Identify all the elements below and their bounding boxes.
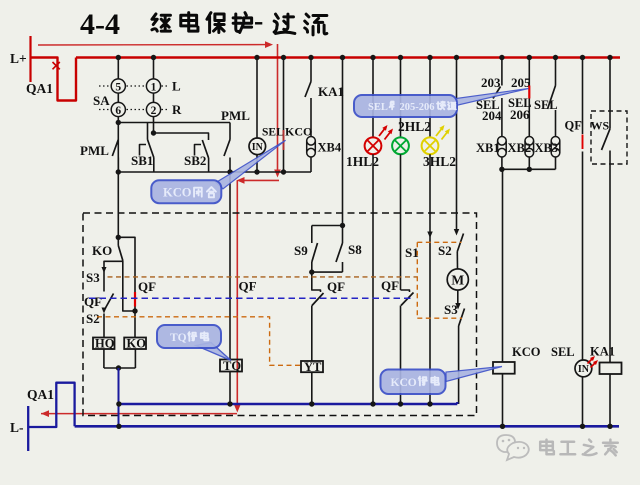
wire branch to QF column <box>118 237 135 337</box>
svg-text:PML: PML <box>221 108 250 123</box>
svg-text:IN: IN <box>252 142 264 153</box>
svg-text:SA: SA <box>93 93 110 108</box>
dashed enclosure box <box>83 213 477 416</box>
wire rail C <box>118 171 311 173</box>
svg-text:SEL: SEL <box>534 98 558 112</box>
svg-text:3HL2: 3HL2 <box>423 154 456 169</box>
watermark logo <box>497 435 529 460</box>
svg-text:M: M <box>451 273 464 288</box>
svg-text:S2: S2 <box>438 243 452 258</box>
coil TQ <box>220 360 242 372</box>
svg-text:QF: QF <box>565 119 583 133</box>
callout KCO energized <box>446 367 502 382</box>
svg-text:2: 2 <box>151 105 157 117</box>
wire jog from KO to QF column <box>123 261 135 312</box>
svg-text:L+: L+ <box>10 51 27 66</box>
svg-text:SEL: SEL <box>262 127 284 139</box>
wire blue mid bus <box>119 403 458 406</box>
svg-text:-: - <box>254 6 263 37</box>
callout KCO closed <box>216 140 286 189</box>
svg-text:TQ: TQ <box>170 332 187 344</box>
svg-text:2HL2: 2HL2 <box>398 119 431 134</box>
svg-text:205-206: 205-206 <box>400 102 435 113</box>
blue dashed QF link <box>89 297 413 299</box>
svg-text:S9: S9 <box>294 243 308 258</box>
svg-text:QF: QF <box>327 279 345 294</box>
svg-text:SB1: SB1 <box>131 153 153 168</box>
svg-text:R: R <box>172 102 182 117</box>
wire TQ column <box>229 172 231 360</box>
svg-text:SEL: SEL <box>508 96 532 110</box>
svg-text:KA1: KA1 <box>318 84 344 99</box>
red annotation arrow from title to KCO contact <box>38 44 268 46</box>
svg-text:KA1: KA1 <box>590 345 615 359</box>
svg-text:1: 1 <box>151 81 157 93</box>
svg-text:XB4: XB4 <box>318 141 342 155</box>
coil YT <box>301 361 323 372</box>
svg-text:SEL: SEL <box>368 102 388 113</box>
svg-text:1HL2: 1HL2 <box>346 154 379 169</box>
svg-text:QF: QF <box>239 279 257 294</box>
svg-text:QA1: QA1 <box>26 81 53 96</box>
svg-text:YT: YT <box>304 360 322 374</box>
svg-text:KO: KO <box>92 243 112 258</box>
svg-text:KCO: KCO <box>391 377 417 389</box>
svg-text:L-: L- <box>10 420 24 435</box>
svg-text:205: 205 <box>511 75 531 90</box>
coil KO <box>124 338 146 350</box>
wire rail B <box>151 130 156 135</box>
wire rail A <box>116 120 121 125</box>
wire L+ bus (red) <box>76 56 620 59</box>
wire HQ/KO junction <box>103 349 105 368</box>
svg-text:L: L <box>172 79 181 94</box>
callout SEL 205-206 on <box>456 89 529 106</box>
svg-text:XB1: XB1 <box>476 141 500 155</box>
motor M <box>447 269 468 290</box>
svg-text:WS: WS <box>591 119 610 133</box>
svg-text:QA1: QA1 <box>27 387 54 402</box>
svg-text:4-4: 4-4 <box>80 8 120 41</box>
wire rail D <box>502 168 556 170</box>
svg-text:PML: PML <box>80 143 109 158</box>
watermark text <box>540 440 554 455</box>
orange dashed link S3 <box>108 276 418 278</box>
svg-text:S8: S8 <box>348 242 362 257</box>
svg-text:SEL: SEL <box>551 345 575 359</box>
svg-text:S3: S3 <box>86 270 100 285</box>
coil HQ <box>93 338 115 350</box>
svg-text:HQ: HQ <box>95 337 115 351</box>
svg-text:QF: QF <box>84 294 102 309</box>
svg-text:QF: QF <box>381 278 399 293</box>
svg-text:5: 5 <box>115 81 121 93</box>
wire L- bus (blue) <box>75 425 619 428</box>
svg-text:6: 6 <box>115 105 121 117</box>
svg-text:S2: S2 <box>86 311 100 326</box>
orange dashed box around S1/S2/M/S3 <box>416 242 418 318</box>
svg-text:KO: KO <box>127 337 147 351</box>
lamp 3HL2 (yellow) <box>429 58 431 138</box>
red annotation arrow along box bottom to L- <box>41 413 237 415</box>
svg-text:203: 203 <box>481 75 501 90</box>
svg-text:KCO: KCO <box>512 345 541 359</box>
wire left column into box <box>117 172 119 237</box>
svg-text:IN: IN <box>578 364 590 375</box>
svg-text:TQ: TQ <box>223 359 241 373</box>
svg-text:KCO: KCO <box>163 186 192 200</box>
orange dashed link S2 to YT <box>97 317 301 366</box>
callout TQ energized <box>196 343 231 361</box>
red annotation arrow left to TQ column <box>240 179 279 181</box>
lamp 1HL2 (red) <box>372 58 374 138</box>
svg-text:QF: QF <box>138 279 156 294</box>
svg-text:KCO: KCO <box>285 125 312 139</box>
